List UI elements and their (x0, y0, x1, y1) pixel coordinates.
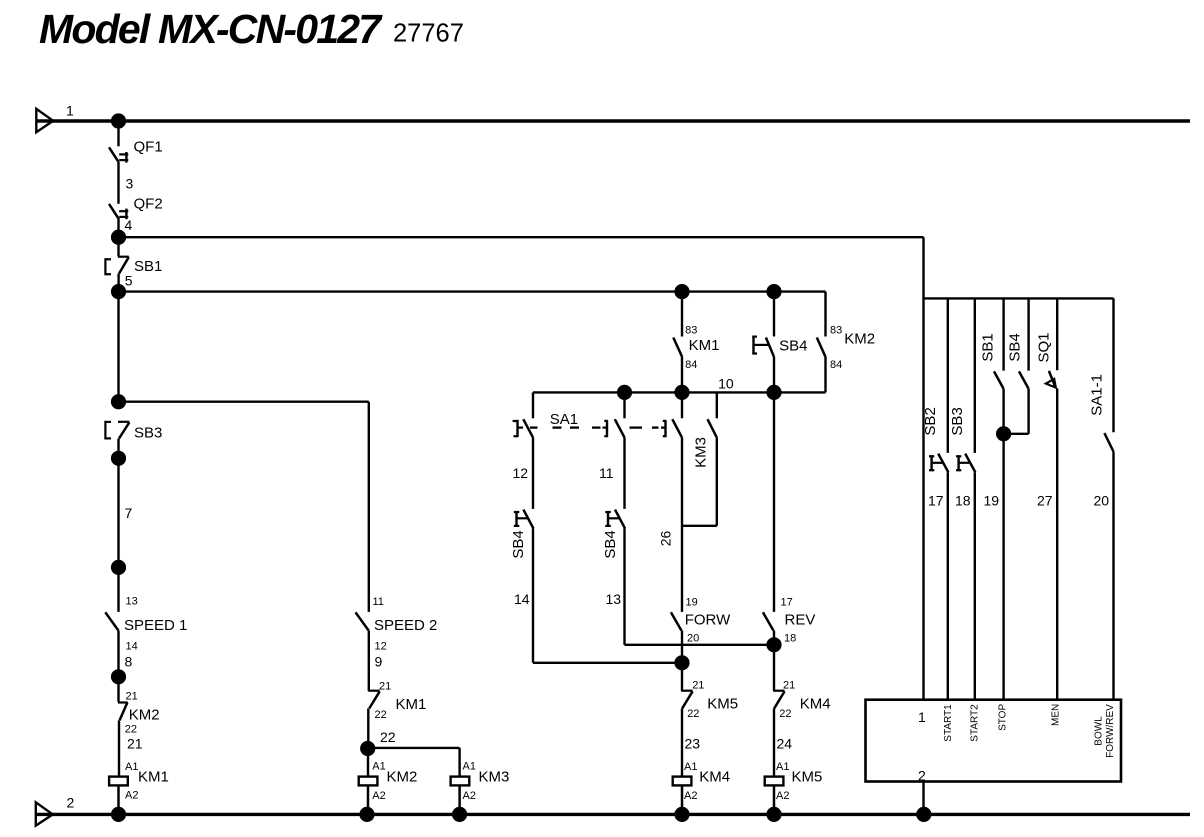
svg-text:21: 21 (127, 736, 143, 752)
svg-text:10: 10 (718, 375, 734, 391)
svg-text:18: 18 (955, 493, 971, 509)
svg-text:A2: A2 (372, 790, 385, 802)
svg-text:11: 11 (373, 596, 384, 608)
svg-text:SA1-1: SA1-1 (1089, 374, 1106, 416)
svg-text:17: 17 (781, 597, 793, 609)
svg-text:SB2: SB2 (922, 407, 939, 435)
svg-text:19: 19 (984, 493, 1000, 509)
svg-text:17: 17 (928, 493, 944, 509)
svg-text:14: 14 (126, 640, 138, 652)
svg-text:13: 13 (606, 591, 622, 607)
svg-text:START1: START1 (943, 704, 954, 742)
svg-text:BOWL: BOWL (1094, 716, 1105, 746)
svg-text:SB4: SB4 (779, 338, 807, 355)
svg-text:KM2: KM2 (129, 706, 160, 723)
svg-text:KM2: KM2 (387, 769, 418, 786)
svg-text:A2: A2 (463, 790, 476, 802)
svg-text:22: 22 (380, 729, 396, 745)
svg-text:27767: 27767 (393, 19, 464, 47)
svg-text:SB3: SB3 (134, 425, 162, 442)
svg-text:27: 27 (1037, 493, 1053, 509)
svg-text:START2: START2 (969, 704, 980, 742)
svg-text:84: 84 (830, 359, 842, 371)
svg-text:12: 12 (513, 465, 529, 481)
svg-text:FORW/REV: FORW/REV (1105, 704, 1116, 758)
svg-text:1: 1 (918, 709, 926, 725)
svg-text:SB4: SB4 (602, 530, 619, 558)
svg-text:KM5: KM5 (707, 695, 738, 712)
svg-text:REV: REV (785, 612, 816, 629)
svg-text:A1: A1 (684, 761, 697, 773)
svg-text:8: 8 (125, 654, 133, 670)
svg-text:22: 22 (125, 724, 137, 736)
svg-text:SB4: SB4 (510, 530, 527, 558)
svg-text:14: 14 (514, 591, 530, 607)
svg-text:18: 18 (784, 633, 796, 645)
svg-text:A2: A2 (776, 790, 789, 802)
svg-text:SPEED 1: SPEED 1 (124, 617, 187, 634)
svg-text:22: 22 (375, 709, 387, 721)
svg-text:A1: A1 (372, 761, 385, 773)
svg-text:22: 22 (687, 708, 699, 720)
svg-text:A1: A1 (463, 761, 476, 773)
svg-text:3: 3 (126, 175, 134, 191)
svg-text:KM1: KM1 (138, 769, 169, 786)
svg-text:83: 83 (830, 325, 842, 337)
svg-text:KM1: KM1 (689, 337, 720, 354)
svg-text:KM3: KM3 (693, 437, 710, 468)
svg-text:21: 21 (692, 679, 704, 691)
svg-text:21: 21 (379, 681, 391, 693)
svg-text:STOP: STOP (997, 704, 1008, 731)
svg-text:22: 22 (779, 708, 791, 720)
svg-text:83: 83 (685, 325, 697, 337)
svg-text:SA1: SA1 (550, 411, 578, 428)
svg-text:A1: A1 (776, 761, 789, 773)
svg-text:SB1: SB1 (979, 333, 996, 361)
svg-text:KM4: KM4 (800, 695, 831, 712)
svg-text:21: 21 (783, 679, 795, 691)
svg-text:SQ1: SQ1 (1035, 332, 1052, 362)
svg-text:SPEED 2: SPEED 2 (374, 617, 437, 634)
svg-text:KM5: KM5 (792, 769, 823, 786)
svg-text:24: 24 (777, 736, 793, 752)
svg-text:KM4: KM4 (699, 769, 730, 786)
svg-text:84: 84 (685, 359, 697, 371)
svg-text:2: 2 (918, 768, 926, 784)
svg-text:SB3: SB3 (949, 407, 966, 435)
svg-text:QF2: QF2 (134, 195, 163, 212)
svg-text:5: 5 (125, 273, 133, 289)
svg-text:KM2: KM2 (844, 331, 875, 348)
svg-text:20: 20 (687, 633, 699, 645)
svg-text:1: 1 (66, 103, 74, 119)
svg-text:20: 20 (1094, 493, 1110, 509)
svg-text:9: 9 (375, 654, 383, 670)
svg-text:A1: A1 (125, 761, 138, 773)
svg-text:A2: A2 (684, 790, 697, 802)
svg-text:13: 13 (126, 596, 138, 608)
svg-text:4: 4 (125, 217, 133, 233)
svg-text:KM3: KM3 (479, 769, 510, 786)
svg-text:FORW: FORW (685, 612, 731, 629)
svg-text:KM1: KM1 (396, 696, 427, 713)
svg-text:MEN: MEN (1050, 704, 1061, 726)
svg-text:23: 23 (685, 736, 701, 752)
svg-text:21: 21 (126, 691, 138, 703)
svg-text:2: 2 (67, 795, 75, 811)
svg-text:Model MX-CN-0127: Model MX-CN-0127 (39, 6, 383, 52)
svg-text:SB4: SB4 (1006, 333, 1023, 361)
svg-text:QF1: QF1 (134, 139, 163, 156)
svg-text:SB1: SB1 (134, 258, 162, 275)
svg-text:26: 26 (657, 531, 673, 547)
svg-text:11: 11 (599, 465, 614, 481)
svg-text:19: 19 (686, 597, 698, 609)
svg-text:12: 12 (375, 640, 387, 652)
svg-text:7: 7 (125, 505, 133, 521)
svg-text:A2: A2 (125, 790, 138, 802)
